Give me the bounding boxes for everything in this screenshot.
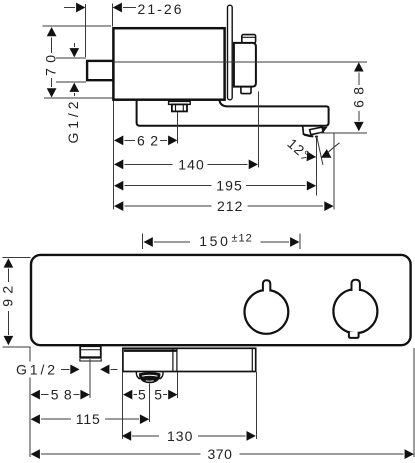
12 deg arc arrow (319, 143, 340, 162)
extension line at bar left (122, 372, 124, 439)
end plate (side) (228, 5, 233, 100)
spout bar (side) (137, 100, 329, 126)
svg-text:370: 370 (207, 446, 232, 462)
dimension 150 +/-12 (144, 232, 300, 249)
extension line at 212 end (333, 133, 335, 209)
knob bottom tab (side) (241, 87, 251, 94)
left extension line for side dimensions (112, 101, 114, 209)
extension line at body left (lower) (29, 347, 31, 362)
spout bar (front) (123, 348, 256, 371)
hose outlet nut (front, below bar) (136, 372, 163, 384)
main body (side) (113, 28, 224, 100)
dimension 370 (31, 446, 414, 462)
wall supply connector (side) (87, 61, 113, 80)
dimension 55 (123, 387, 178, 403)
svg-text:G1/2: G1/2 (65, 101, 81, 143)
dimension 195 (114, 178, 316, 194)
svg-text:195: 195 (216, 178, 242, 194)
main body (front) (31, 255, 411, 345)
wall reference line (85, 4, 87, 57)
dimension 115 (31, 411, 150, 427)
right knob stem (352, 280, 360, 291)
extension line at body right (lower) (413, 348, 415, 457)
dimension 70 top reference line (43, 25, 111, 27)
left knob stem (263, 280, 270, 291)
supply connector (front) (80, 346, 102, 361)
svg-text:140: 140 (178, 156, 204, 172)
knob top tab (side) (242, 35, 256, 43)
hose nut on bar (side) (169, 101, 191, 111)
svg-text:130: 130 (167, 428, 193, 444)
svg-text:G1/2: G1/2 (16, 361, 55, 377)
dimension 130 (122, 428, 256, 444)
G1/2 connector extension lines (56, 57, 86, 59)
dimension 70 bottom reference line (44, 97, 113, 99)
dimension 21-26 (64, 1, 182, 17)
extension line at outlet center (148, 384, 150, 423)
right knob (333, 289, 377, 333)
svg-text:115: 115 (76, 411, 100, 427)
extension line at knob front (258, 92, 260, 168)
12 deg vertical reference line (315, 137, 317, 196)
centerline through body (113, 61, 366, 63)
extension line at connector center (89, 359, 91, 398)
12 deg left arrow (301, 152, 316, 162)
dimension 58 (31, 387, 90, 403)
92 reference lines (3, 256, 31, 258)
extension line for 21-26 at body back (112, 4, 114, 27)
knob (side) (234, 43, 256, 87)
svg-text:212: 212 (217, 198, 243, 214)
extension line at hose block right (177, 372, 179, 398)
svg-text:21-26: 21-26 (138, 1, 182, 17)
G1/2 label (front) with arrows (16, 361, 118, 377)
12 deg slanted line (317, 136, 323, 165)
dimension 140 (114, 156, 258, 172)
dimension 68 (350, 62, 366, 131)
extension lines for 150 dimension (142, 233, 144, 249)
dimension 92 (0, 258, 16, 345)
left knob (245, 290, 289, 334)
spout nozzle (side, tilted 12 deg) (303, 126, 328, 139)
G1/2 side label and arrows (65, 43, 81, 144)
dimension 68 bottom reference line (319, 132, 368, 134)
extension line at nut center (177, 112, 179, 144)
right knob bottom tab (349, 332, 359, 338)
dimension 62 (114, 133, 177, 149)
extension line at bar right (255, 372, 257, 439)
dimension 70 (43, 27, 59, 98)
dimension 212 (114, 198, 334, 214)
